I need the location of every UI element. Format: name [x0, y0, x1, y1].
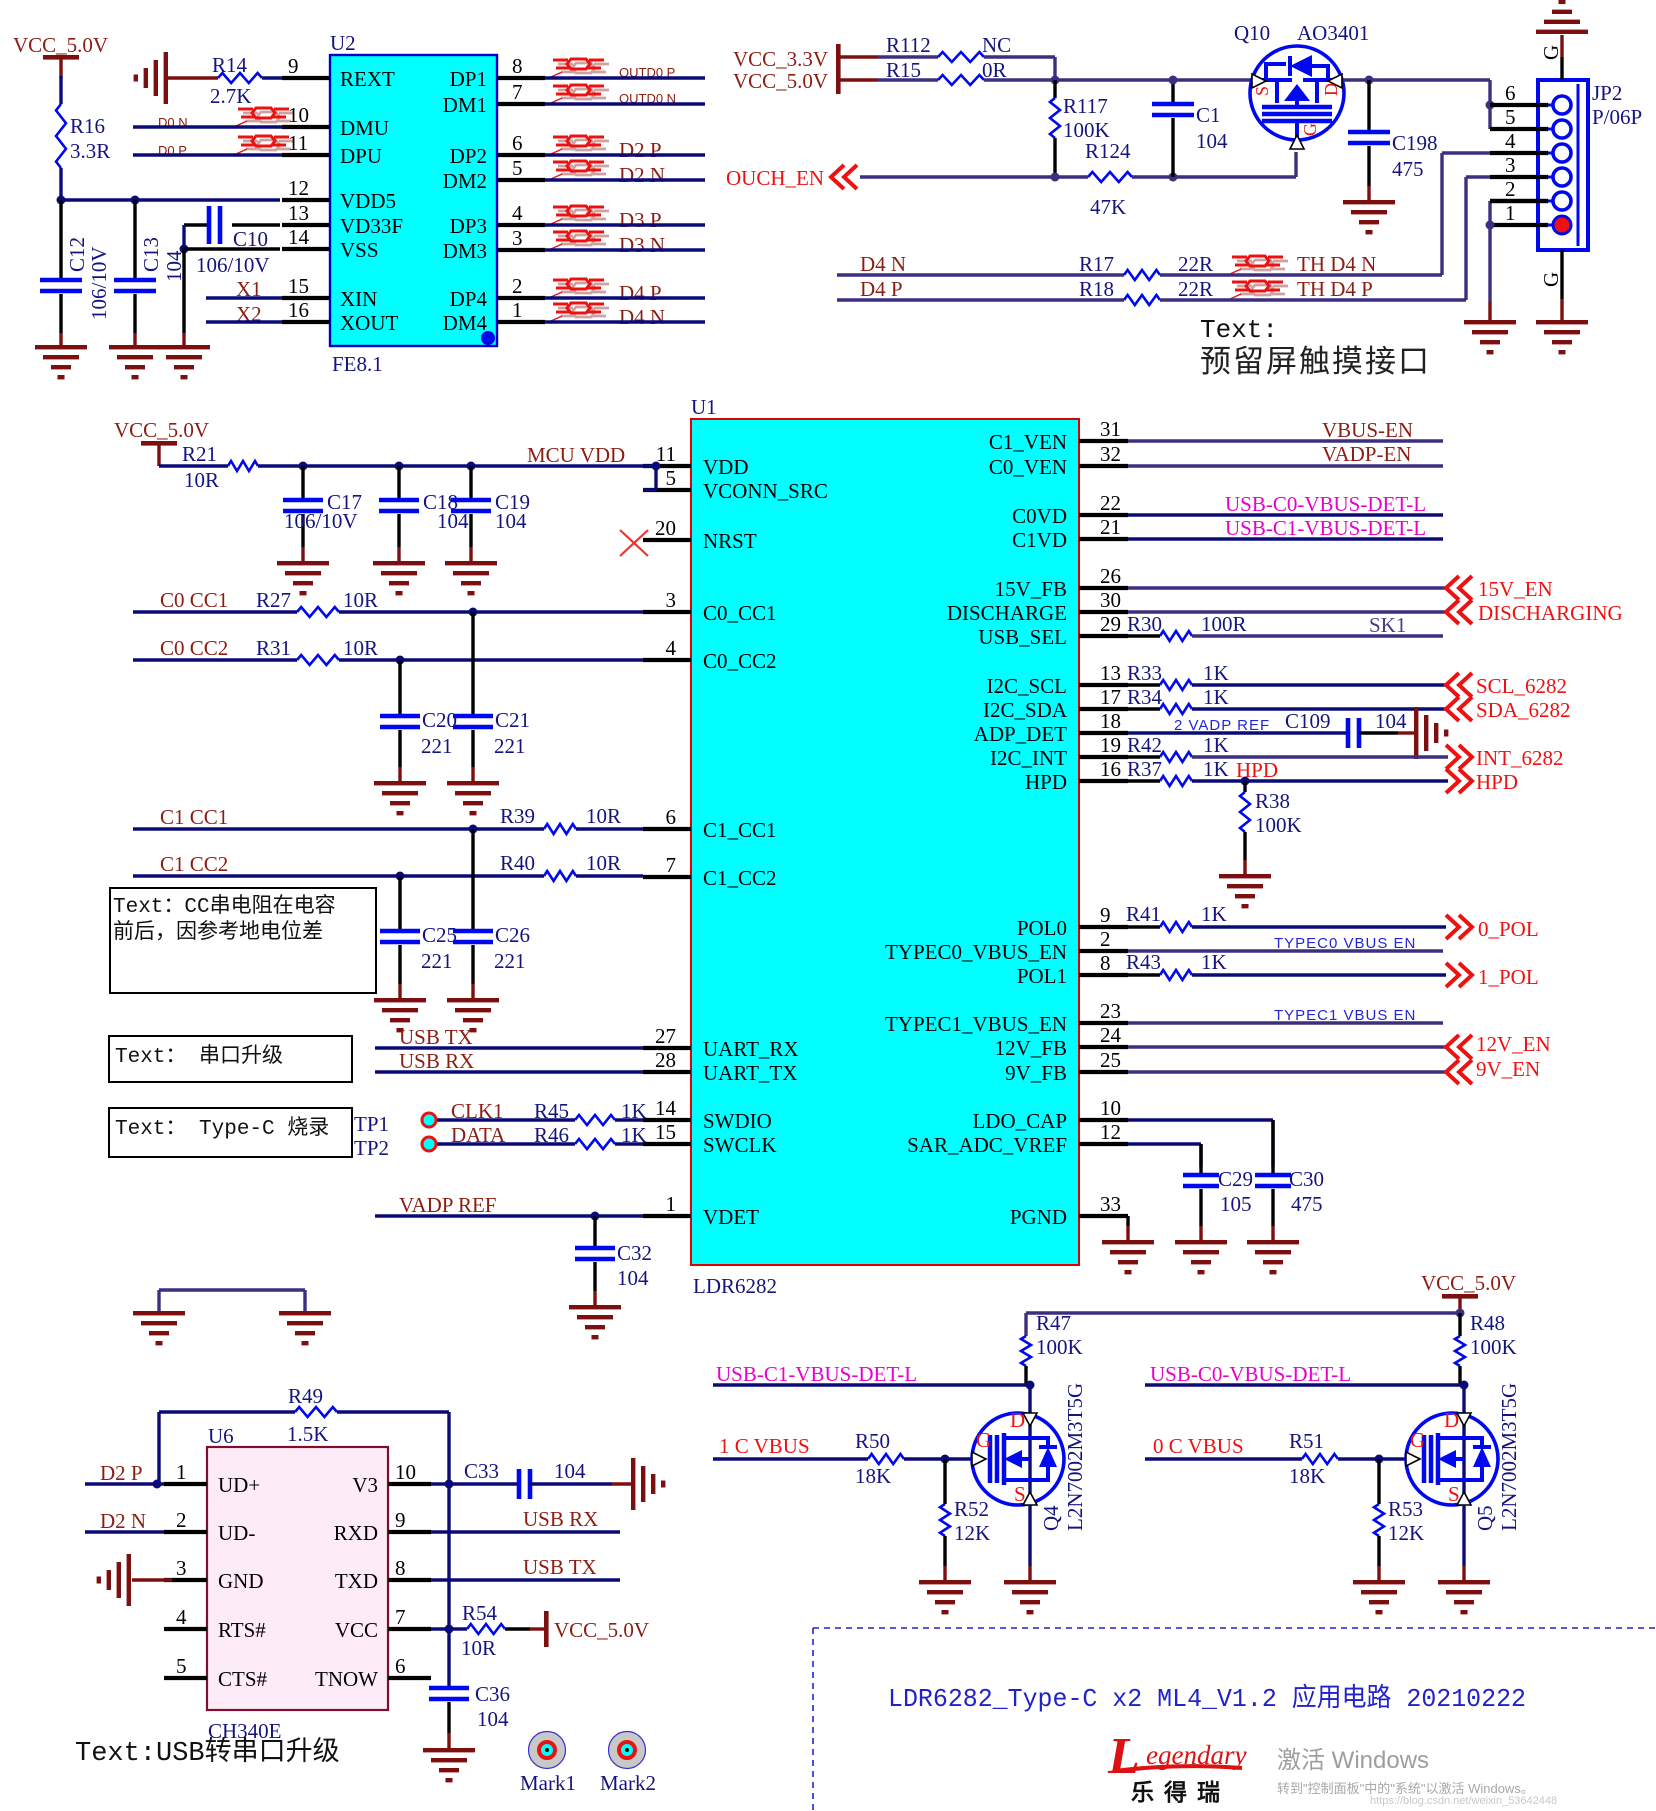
ferrite bead icon OUTD0_N — [558, 89, 573, 92]
wire R45 to U1 pin14 — [615, 1118, 643, 1121]
svg-text:9: 9 — [1100, 903, 1111, 927]
wire X2 to U2 pin 16 — [206, 320, 282, 323]
svg-text:106/10V: 106/10V — [87, 247, 111, 321]
resistor R43 1K — [1128, 973, 1160, 976]
svg-text:C109: C109 — [1285, 709, 1331, 733]
resistor R50 18K — [855, 1429, 904, 1488]
svg-text:R52: R52 — [954, 1497, 989, 1521]
svg-text:16: 16 — [288, 298, 309, 322]
svg-text:15V_FB: 15V_FB — [995, 577, 1067, 601]
U2 pin 7 (DM1) stub — [497, 102, 545, 106]
svg-text:3: 3 — [512, 226, 523, 250]
text note box: Type-C program — [109, 1108, 352, 1157]
wire ground jumper loop — [157, 1290, 160, 1311]
svg-text:D: D — [1444, 1408, 1459, 1432]
U1 pin 19 (I2C_INT) stub — [1079, 755, 1128, 759]
svg-text:DP3: DP3 — [450, 214, 487, 238]
wire MCU_VDD rail — [258, 464, 656, 467]
svg-text:REXT: REXT — [340, 67, 395, 91]
wire R27 to U1 pin3 — [339, 610, 643, 613]
JP2 pin 3 stub — [1490, 175, 1548, 179]
wire TP2 to R46 — [437, 1142, 575, 1145]
svg-text:R51: R51 — [1289, 1429, 1324, 1453]
svg-text:TH D4 P: TH D4 P — [1297, 277, 1373, 301]
U6 pin 6 (TNOW) stub — [388, 1676, 431, 1680]
svg-text:USB-C0-VBUS-DET-L: USB-C0-VBUS-DET-L — [1150, 1362, 1351, 1386]
U2 pin 8 (DP1) stub — [497, 76, 545, 80]
svg-text:G: G — [976, 1428, 991, 1452]
svg-text:23: 23 — [1100, 999, 1121, 1023]
svg-text:S: S — [1252, 86, 1272, 96]
svg-text:15: 15 — [288, 274, 309, 298]
svg-text:C36: C36 — [475, 1682, 510, 1706]
svg-text:USB_SEL: USB_SEL — [978, 625, 1067, 649]
node junction C21 top — [469, 608, 478, 617]
svg-text:AO3401: AO3401 — [1297, 21, 1369, 45]
svg-text:4: 4 — [176, 1605, 187, 1629]
svg-text:R27: R27 — [256, 588, 291, 612]
capacitor C17 106/10V — [283, 466, 362, 562]
svg-text:DP4: DP4 — [450, 287, 488, 311]
resistor R46 1K — [534, 1123, 647, 1149]
svg-text:R43: R43 — [1126, 950, 1161, 974]
U6 pin 9 (RXD) stub — [388, 1530, 431, 1534]
svg-text:1K: 1K — [1203, 661, 1229, 685]
wire Q5 source to ground — [1462, 1505, 1465, 1566]
svg-text:0_POL: 0_POL — [1478, 917, 1539, 941]
ground at C13 — [109, 345, 161, 379]
wire D2_N to U6 pin2 — [85, 1530, 164, 1533]
net port 0_POL — [1446, 915, 1472, 939]
svg-text:C0VD: C0VD — [1012, 504, 1067, 528]
svg-text:R30: R30 — [1127, 612, 1162, 636]
U6 pin 4 (RTS#) stub — [164, 1627, 207, 1631]
node junction C20 top — [396, 656, 405, 665]
wire TXD / USB_TX — [431, 1578, 620, 1581]
svg-text:Q4: Q4 — [1039, 1505, 1063, 1531]
svg-text:VDD: VDD — [703, 455, 749, 479]
svg-text:10R: 10R — [461, 1636, 496, 1660]
svg-text:10R: 10R — [586, 851, 621, 875]
svg-text:10R: 10R — [586, 804, 621, 828]
svg-text:R16: R16 — [70, 114, 105, 138]
svg-text:221: 221 — [421, 734, 453, 758]
wire PGND to ground (pin33) — [1126, 1216, 1129, 1226]
capacitor C32 104 — [575, 1216, 652, 1306]
svg-text:VCC_5.0V: VCC_5.0V — [1421, 1271, 1516, 1295]
wire TH_D4_N to JP2 pin4 — [1160, 273, 1442, 276]
svg-text:17: 17 — [1100, 685, 1121, 709]
wire JP2 top G pin to ground — [1560, 57, 1563, 80]
svg-text:475: 475 — [1392, 157, 1424, 181]
svg-text:R37: R37 — [1127, 757, 1162, 781]
wire VADP-EN (pin32) — [1128, 464, 1443, 467]
ground right of C33 (rotated) — [631, 1458, 665, 1510]
node junction D2_P / R49 — [153, 1480, 162, 1489]
U6 pin 10 (V3) stub — [388, 1482, 431, 1486]
svg-text:D: D — [1010, 1408, 1025, 1432]
svg-text:1: 1 — [1505, 201, 1516, 225]
svg-text:预留屏触摸接口: 预留屏触摸接口 — [1200, 344, 1431, 379]
transistor Q5 L2N7002M3T5G (NMOS) — [1406, 1383, 1521, 1531]
wire V3 to C33 — [431, 1482, 519, 1485]
capacitor C13 104 — [114, 200, 186, 347]
svg-text:ADP_DET: ADP_DET — [974, 722, 1068, 746]
wire TYPEC1_VBUS_EN (pin23) — [1128, 1021, 1443, 1024]
U1 pin 1 (VDET) stub — [643, 1214, 691, 1218]
svg-text:TYPEC0_VBUS_EN: TYPEC0_VBUS_EN — [885, 940, 1067, 964]
svg-text:L: L — [1107, 1728, 1140, 1785]
svg-text:USB-C1-VBUS-DET-L: USB-C1-VBUS-DET-L — [716, 1362, 917, 1386]
wire VADP_REF to U1 pin1 — [375, 1214, 643, 1217]
wire VDD5 rail to U2 pin 12 — [61, 198, 280, 201]
svg-text:100K: 100K — [1470, 1335, 1517, 1359]
svg-text:25: 25 — [1100, 1048, 1121, 1072]
U1 pin 32 (C0_VEN) stub — [1079, 464, 1128, 468]
svg-text:29: 29 — [1100, 612, 1121, 636]
resistor R124 47K — [1085, 139, 1132, 219]
svg-text:C1: C1 — [1196, 103, 1221, 127]
resistor R34 1K — [1128, 707, 1160, 710]
wire VCC to R16 — [59, 76, 62, 104]
svg-text:R33: R33 — [1127, 661, 1162, 685]
capacitor C30 475 — [1255, 1120, 1324, 1241]
wire Q4 source to ground — [1028, 1505, 1031, 1566]
wire VBUS-EN (pin31) — [1128, 439, 1443, 442]
ferrite bead icon D2_P — [558, 140, 573, 143]
svg-text:R15: R15 — [886, 58, 921, 82]
wire USB_SEL SK1 (pin29) — [1192, 634, 1443, 637]
svg-text:C0_CC2: C0_CC2 — [703, 649, 777, 673]
svg-text:R48: R48 — [1470, 1311, 1505, 1335]
wire D4_N to R17 — [837, 273, 1124, 276]
resistor R54 10R — [461, 1601, 505, 1660]
wire RXD / USB_RX — [431, 1530, 620, 1533]
svg-text:2: 2 — [1505, 177, 1516, 201]
U1 pin 17 (I2C_SDA) stub — [1079, 707, 1128, 711]
svg-text:100K: 100K — [1036, 1335, 1083, 1359]
svg-text:12: 12 — [288, 176, 309, 200]
ferrite bead icon D4_P — [558, 283, 573, 286]
U1 pin 21 (C1VD) stub — [1079, 537, 1128, 541]
U1 pin 30 (DISCHARGE) stub — [1079, 610, 1128, 614]
ferrite bead icon on D0_N — [243, 112, 258, 115]
svg-text:8: 8 — [512, 54, 523, 78]
svg-text:14: 14 — [655, 1096, 677, 1120]
resistor R48 100K — [1455, 1311, 1517, 1385]
ground at C25 — [374, 998, 426, 1032]
svg-text:D4 P: D4 P — [860, 277, 903, 301]
wire D4_P to R18 — [837, 298, 1124, 301]
svg-text:R31: R31 — [256, 636, 291, 660]
svg-text:G: G — [1539, 45, 1563, 60]
svg-text:VCC_3.3V: VCC_3.3V — [733, 47, 828, 71]
svg-text:6: 6 — [512, 131, 523, 155]
svg-text:RXD: RXD — [334, 1521, 378, 1545]
U1 pin 25 (9V_FB) stub — [1079, 1070, 1128, 1074]
ground at C26 — [447, 998, 499, 1032]
svg-text:DM1: DM1 — [443, 93, 487, 117]
wire VCC to R54 — [431, 1627, 467, 1630]
svg-text:12V_EN: 12V_EN — [1476, 1032, 1551, 1056]
svg-text:GND: GND — [218, 1569, 264, 1593]
svg-text:L2N7002M3T5G: L2N7002M3T5G — [1497, 1383, 1521, 1531]
svg-text:DPU: DPU — [340, 144, 382, 168]
svg-text:TNOW: TNOW — [315, 1667, 378, 1691]
ferrite bead icon D2_N — [558, 165, 573, 168]
svg-text:5: 5 — [512, 156, 523, 180]
svg-text:26: 26 — [1100, 564, 1121, 588]
svg-text:激活 Windows: 激活 Windows — [1277, 1747, 1429, 1774]
wire OUCH_EN — [860, 175, 1088, 178]
svg-text:6: 6 — [1505, 81, 1516, 105]
svg-text:5: 5 — [666, 466, 677, 490]
resistor R117 100K — [1050, 94, 1110, 142]
JP2 pin 5 stub — [1490, 127, 1548, 131]
svg-text:RTS#: RTS# — [218, 1618, 266, 1642]
U1 pin 28 (UART_TX) stub — [643, 1070, 691, 1074]
svg-text:INT_6282: INT_6282 — [1476, 746, 1564, 770]
ground at R38 — [1219, 874, 1271, 908]
svg-text:R18: R18 — [1079, 277, 1114, 301]
wire C33 to ground — [530, 1482, 612, 1485]
svg-text:TYPEC1 VBUS EN: TYPEC1 VBUS EN — [1274, 1007, 1416, 1024]
capacitor C33 104 — [464, 1459, 586, 1499]
U1 pin 27 (UART_RX) stub — [643, 1046, 691, 1050]
node junction C1 bottom — [1169, 173, 1178, 182]
wire D3_P — [545, 223, 705, 226]
svg-text:8: 8 — [395, 1556, 406, 1580]
svg-text:3: 3 — [666, 588, 677, 612]
svg-text:C25: C25 — [422, 923, 457, 947]
svg-text:C0_VEN: C0_VEN — [989, 455, 1067, 479]
svg-text:9V_EN: 9V_EN — [1476, 1057, 1540, 1081]
U1 pin 5 (VCONN_SRC) stub — [643, 488, 691, 492]
ground at Q5 source — [1438, 1580, 1490, 1614]
ground left of U6 (rotated) — [97, 1554, 131, 1606]
svg-text:VCC_5.0V: VCC_5.0V — [13, 33, 108, 57]
wire Q5 drain lead — [1462, 1385, 1465, 1413]
wire Q10 drain to JP2 pins 5/6 — [1343, 78, 1490, 81]
svg-text:3: 3 — [176, 1556, 187, 1580]
svg-text:R54: R54 — [462, 1601, 498, 1625]
svg-text:C1 CC2: C1 CC2 — [160, 852, 228, 876]
svg-text:11: 11 — [288, 131, 308, 155]
svg-text:7: 7 — [512, 80, 523, 104]
U1 pin 3 (C0_CC1) stub — [643, 610, 691, 614]
svg-text:D2 P: D2 P — [619, 138, 662, 162]
node junction VCC / R54 — [445, 1625, 454, 1634]
svg-text:PGND: PGND — [1010, 1205, 1067, 1229]
U1 pin 10 (LDO_CAP) stub — [1079, 1118, 1128, 1122]
svg-text:USB-C0-VBUS-DET-L: USB-C0-VBUS-DET-L — [1225, 492, 1426, 516]
wire DISCHARGE (pin30) — [1128, 610, 1448, 613]
U6 pin 5 (CTS#) stub — [164, 1676, 207, 1680]
wire VD33F / capacitor C10 branch — [184, 223, 209, 226]
capacitor C26 221 — [453, 829, 530, 999]
svg-text:USB TX: USB TX — [399, 1025, 473, 1049]
svg-text:31: 31 — [1100, 417, 1121, 441]
svg-text:R49: R49 — [288, 1384, 323, 1408]
fiducial Mark2 — [600, 1732, 656, 1796]
ground at C30 — [1247, 1240, 1299, 1274]
U1 pin 6 (C1_CC1) stub — [643, 827, 691, 831]
node junctions on MCU_VDD rail — [299, 462, 308, 471]
svg-text:19: 19 — [1100, 733, 1121, 757]
ground at C20 — [374, 781, 426, 815]
svg-text:C33: C33 — [464, 1459, 499, 1483]
svg-text:Text： 串口升级: Text： 串口升级 — [115, 1044, 283, 1069]
wire R49 loop left — [157, 1412, 160, 1484]
U1 pin 13 (I2C_SCL) stub — [1079, 683, 1128, 687]
svg-text:I2C_INT: I2C_INT — [990, 746, 1067, 770]
ferrite bead icon D3_N — [558, 235, 573, 238]
wire C1_CC2 to R40 — [133, 874, 544, 877]
svg-text:C1_VEN: C1_VEN — [989, 430, 1067, 454]
svg-text:XOUT: XOUT — [340, 311, 398, 335]
ground symbol at REXT (rotated left) — [134, 52, 168, 104]
net port 15V_EN — [1446, 576, 1472, 600]
svg-text:NC: NC — [982, 33, 1011, 57]
svg-text:4: 4 — [512, 201, 523, 225]
svg-text:15V_EN: 15V_EN — [1478, 577, 1553, 601]
svg-text:221: 221 — [494, 949, 526, 973]
svg-text:5: 5 — [1505, 105, 1516, 129]
svg-text:6: 6 — [666, 805, 677, 829]
wire TP1 to R45 — [437, 1118, 575, 1121]
svg-text:1_POL: 1_POL — [1478, 965, 1539, 989]
svg-text:Text:: Text: — [1200, 315, 1278, 345]
svg-text:47K: 47K — [1090, 195, 1126, 219]
svg-text:D3 N: D3 N — [619, 233, 665, 257]
svg-text:C0 CC2: C0 CC2 — [160, 636, 228, 660]
svg-text:JP2: JP2 — [1592, 81, 1622, 105]
JP2 pin 1 stub — [1490, 223, 1548, 227]
svg-text:USB RX: USB RX — [399, 1049, 474, 1073]
wire JP2 bottom G pin to ground — [1560, 250, 1563, 299]
U1 pin 26 (15V_FB) stub — [1079, 586, 1128, 590]
svg-text:VD33F: VD33F — [340, 214, 403, 238]
node junction JP2 pin6 — [1486, 101, 1495, 110]
svg-text:10: 10 — [395, 1460, 416, 1484]
svg-text:100R: 100R — [1201, 612, 1247, 636]
svg-text:8: 8 — [1100, 951, 1111, 975]
svg-text:Q5: Q5 — [1473, 1505, 1497, 1531]
node junction VSS/C10 — [180, 245, 189, 254]
U6 pin 2 (UD-) stub — [164, 1530, 207, 1534]
svg-text:D4 N: D4 N — [619, 305, 665, 329]
wire D4_N — [545, 320, 705, 323]
svg-text:100K: 100K — [1255, 813, 1302, 837]
U1 pin 12 (SAR_ADC_VREF) stub — [1079, 1142, 1128, 1146]
wire D2_N — [545, 178, 705, 181]
svg-text:12K: 12K — [954, 1521, 990, 1545]
svg-text:DM4: DM4 — [443, 311, 488, 335]
svg-text:2.7K: 2.7K — [210, 84, 251, 108]
svg-text:Text： Type-C 烧录: Text： Type-C 烧录 — [115, 1116, 329, 1141]
node junction C26 top — [469, 825, 478, 834]
wire ADP_DET to C109 (pin18) — [1128, 731, 1348, 734]
svg-text:NRST: NRST — [703, 529, 757, 553]
title block dashed border — [813, 1628, 1656, 1811]
wire R112 to corner — [984, 55, 1055, 58]
ground at C17 — [277, 561, 329, 595]
svg-text:C26: C26 — [495, 923, 530, 947]
svg-text:C21: C21 — [495, 708, 530, 732]
svg-text:9: 9 — [288, 54, 299, 78]
svg-text:30: 30 — [1100, 588, 1121, 612]
resistor R14 2.7K — [210, 53, 262, 108]
wire R49 loop right — [337, 1410, 449, 1413]
node junction C32 top — [591, 1212, 600, 1221]
svg-text:VCC_5.0V: VCC_5.0V — [554, 1618, 649, 1642]
svg-text:104: 104 — [477, 1707, 509, 1731]
wire JP2 pins1/2 to ground — [1488, 201, 1491, 225]
node junction R48/Q5 drain — [1460, 1381, 1469, 1390]
U2 pin 6 (DP2) stub — [497, 153, 545, 157]
wire OUTD0_N — [545, 102, 705, 105]
svg-text:12K: 12K — [1388, 1521, 1424, 1545]
svg-text:SDA_6282: SDA_6282 — [1476, 698, 1571, 722]
wire ground to R14 — [168, 76, 218, 79]
capacitor C21 221 — [453, 612, 530, 782]
svg-text:POL0: POL0 — [1017, 916, 1067, 940]
svg-text:TYPEC1_VBUS_EN: TYPEC1_VBUS_EN — [885, 1012, 1067, 1036]
wire D0_N to U2 pin 10 — [133, 125, 282, 128]
U1 pin 22 (C0VD) stub — [1079, 513, 1128, 517]
resistor R39 10R — [500, 804, 621, 834]
svg-text:HPD: HPD — [1025, 770, 1067, 794]
svg-text:HPD: HPD — [1476, 770, 1518, 794]
wire R47 to DET-L net — [1024, 1366, 1027, 1385]
node junction R52 top — [941, 1455, 950, 1464]
svg-text:乐得瑞: 乐得瑞 — [1131, 1779, 1230, 1805]
resistor R30 100R — [1128, 634, 1160, 637]
net port 9V_EN — [1446, 1060, 1472, 1084]
logo Legendary — [1107, 1728, 1246, 1805]
svg-text:I2C_SCL: I2C_SCL — [986, 674, 1067, 698]
wire D2_P — [545, 153, 705, 156]
ferrite bead icon on D0_P — [243, 140, 258, 143]
svg-text:C20: C20 — [422, 708, 457, 732]
svg-text:21: 21 — [1100, 515, 1121, 539]
resistor R38 100K — [1240, 781, 1302, 875]
JP2 pin 2 circle — [1553, 192, 1571, 210]
svg-text:XIN: XIN — [340, 287, 377, 311]
svg-text:7: 7 — [666, 853, 677, 877]
svg-text:0 C VBUS: 0 C VBUS — [1153, 1434, 1244, 1458]
svg-text:22R: 22R — [1178, 252, 1213, 276]
svg-text:221: 221 — [421, 949, 453, 973]
node junction R15/R117 — [1051, 76, 1060, 85]
wire C109 to ground — [1359, 731, 1398, 734]
svg-text:C12: C12 — [65, 237, 89, 272]
svg-text:7: 7 — [395, 1605, 406, 1629]
ground below JP2 — [1536, 320, 1588, 354]
U1 pin 23 (TYPEC1_VBUS_EN) stub — [1079, 1021, 1128, 1025]
wire Q4 drain lead — [1028, 1385, 1031, 1413]
ground at C19 — [445, 561, 497, 595]
U2 blue dot marker — [481, 331, 495, 345]
svg-text:18K: 18K — [1289, 1464, 1325, 1488]
capacitor C20 221 — [380, 660, 457, 782]
svg-text:3: 3 — [1505, 153, 1516, 177]
capacitor C12 106/10V — [40, 200, 111, 347]
IC U1 LDR6282 body — [691, 419, 1079, 1265]
ground at C29 — [1175, 1240, 1227, 1274]
wire C1_CC1 to R39 — [133, 827, 544, 830]
svg-text:20: 20 — [655, 516, 676, 540]
